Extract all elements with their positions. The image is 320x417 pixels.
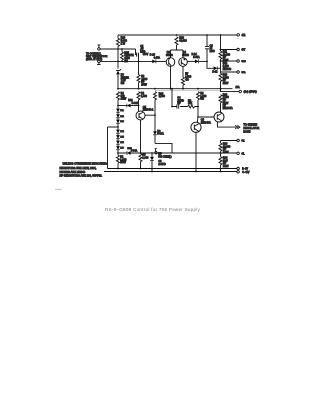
resistor R13 upper xyxy=(219,73,222,81)
node junction x198 y106.5 xyxy=(197,106,199,108)
diode chain D12 xyxy=(117,112,119,114)
svg-text:D12: D12 xyxy=(120,116,123,118)
svg-text:500 OHM(L): 500 OHM(L) xyxy=(158,155,171,158)
svg-text:C- 4AV: C- 4AV xyxy=(242,171,250,174)
svg-text:UNIT THERMISTOR: UNIT THERMISTOR xyxy=(86,56,108,58)
svg-text:NP RESISTORS ARE 1%, 50PPM.: NP RESISTORS ARE 1%, 50PPM. xyxy=(60,174,103,178)
svg-text:4R3: 4R3 xyxy=(241,61,246,63)
svg-text:5-84A: 5-84A xyxy=(193,56,200,59)
diode D6 column xyxy=(151,153,153,157)
svg-text:NP: NP xyxy=(177,102,181,105)
node junction x198 y117 xyxy=(197,116,199,118)
wire y106.5 branch xyxy=(172,106,198,108)
wire TB1 line xyxy=(100,48,135,50)
terminal T5 xyxy=(237,139,240,142)
terminal TB2 xyxy=(98,60,101,63)
wire bottom bus lower xyxy=(104,171,237,173)
svg-text:5-84A: 5-84A xyxy=(131,150,138,153)
node junctions on mid bus xyxy=(117,88,119,90)
resistor R11 xyxy=(219,51,222,59)
wire x118 segment xyxy=(117,49,119,61)
capacitor C3 xyxy=(205,35,209,61)
resistor R9 xyxy=(197,92,200,100)
diode chain D17 xyxy=(117,144,119,146)
svg-text:TO CONTROL: TO CONTROL xyxy=(86,53,102,55)
svg-text:1/2W: 1/2W xyxy=(120,161,126,164)
node junction x138.5 y105.5 xyxy=(138,105,140,107)
svg-text:1/2W: 1/2W xyxy=(223,165,229,168)
faint speck bottom left xyxy=(55,189,62,190)
svg-text:D13: D13 xyxy=(120,121,123,123)
svg-text:90,000: 90,000 xyxy=(179,40,187,43)
wire Q3 emitter to mid bus xyxy=(170,66,172,88)
svg-text:2N1844A: 2N1844A xyxy=(223,107,233,110)
svg-text:1 W: 1 W xyxy=(121,42,126,45)
svg-text:1/2W: 1/2W xyxy=(223,82,229,85)
diode D10 xyxy=(152,60,156,64)
wire terminal T6 line xyxy=(221,152,237,154)
svg-text:2N1844A: 2N1844A xyxy=(201,121,211,124)
wire y153 line xyxy=(118,152,172,154)
wire step from D14 node to right column xyxy=(207,61,214,68)
node junction x152 y153 xyxy=(151,152,153,154)
resistor R1 xyxy=(117,155,120,163)
transistor Q4 xyxy=(179,58,188,67)
node junction top bus at R11 xyxy=(220,34,222,36)
wire to left branch xyxy=(117,123,119,130)
svg-text:(B+) (70V+): (B+) (70V+) xyxy=(244,91,257,94)
wire Q7 base line xyxy=(198,116,214,118)
svg-text:RESISTORS ARE 1/2W, 10%,: RESISTORS ARE 1/2W, 10%, xyxy=(60,166,97,170)
wire bottom bus upper xyxy=(108,168,237,170)
transistor Q5 xyxy=(136,111,145,120)
node junction top bus at R22 xyxy=(176,34,178,36)
svg-text:1N4648: 1N4648 xyxy=(223,68,232,71)
diode chain D16b xyxy=(117,139,119,141)
resistor R22 xyxy=(175,37,178,45)
svg-text:D-12: D-12 xyxy=(212,72,218,74)
wire Q6 emitter xyxy=(195,132,197,171)
wire terminal T3 line xyxy=(221,60,237,62)
terminal B+ xyxy=(239,90,242,93)
svg-text:MFD: MFD xyxy=(210,50,215,53)
svg-text:(REG. AT 25°F): (REG. AT 25°F) xyxy=(86,58,102,61)
resistor R8 horizontal xyxy=(188,105,195,108)
resistor R7 on Q4 emitter xyxy=(182,66,184,77)
node junction top bus at C3 xyxy=(206,34,208,36)
terminal T6 xyxy=(237,152,240,155)
svg-text:TO SERIES: TO SERIES xyxy=(243,122,257,126)
diode D12 step xyxy=(214,66,218,70)
svg-text:5-84A: 5-84A xyxy=(132,102,139,105)
svg-text:47K: 47K xyxy=(188,102,193,105)
svg-text:1,840: 1,840 xyxy=(142,156,149,159)
terminal T8 xyxy=(237,171,240,174)
node junction x207 y61.4 xyxy=(206,61,208,63)
terminal T2 xyxy=(237,48,240,51)
transistor Q3 xyxy=(166,58,175,67)
node junction base line x118 y105.5 xyxy=(117,105,119,107)
svg-text:UNLESS OTHERWISE INDICATED:: UNLESS OTHERWISE INDICATED: xyxy=(63,162,108,166)
wire Q7 emitter to arrow xyxy=(217,122,236,127)
terminal T4 xyxy=(237,71,240,74)
arrow to series regulator xyxy=(235,125,240,128)
node junction x118 y61.4 xyxy=(117,61,119,63)
svg-text:1/2W: 1/2W xyxy=(223,102,229,105)
resistor R25 divider xyxy=(121,52,124,60)
wire B+ terminal line xyxy=(155,90,221,92)
svg-text:1/2W: 1/2W xyxy=(121,98,127,101)
svg-text:400V: 400V xyxy=(143,53,149,56)
terminal TB1 xyxy=(98,48,101,51)
wire TB2 line to Q3 base xyxy=(100,60,166,62)
resistor R13b xyxy=(220,141,222,144)
wire terminal T5 line xyxy=(221,140,237,142)
resistor R14 xyxy=(220,153,222,157)
node junction x220.5 y153 xyxy=(220,152,222,154)
resistor R12b collector feed xyxy=(219,95,222,103)
node junctions bottom bus upper xyxy=(117,168,119,170)
diode chain D11 xyxy=(117,106,119,109)
svg-text:D14: D14 xyxy=(120,131,123,133)
node junction x118 y153 xyxy=(117,152,119,154)
zener diode D9 xyxy=(117,61,119,68)
capacitor C5 xyxy=(136,49,139,57)
terminal T3 xyxy=(237,60,240,63)
svg-text:RS-8–G808 Control for 708 Powe: RS-8–G808 Control for 708 Power Supply xyxy=(105,207,201,212)
wire terminal T2 line xyxy=(221,49,237,51)
svg-text:13A: 13A xyxy=(236,86,241,89)
wire Q3 Q4 collector tie xyxy=(171,50,184,58)
wire mid bus xyxy=(118,88,233,90)
svg-text:D17: D17 xyxy=(120,148,123,150)
svg-text:2N1844-1: 2N1844-1 xyxy=(143,109,154,112)
svg-text:90809: 90809 xyxy=(166,54,173,57)
wire into Q5 base xyxy=(138,106,140,112)
transistor Q6 xyxy=(191,122,201,132)
svg-text:90809: 90809 xyxy=(182,54,189,57)
diode chain D14b xyxy=(116,130,120,134)
svg-text:4.49A: 4.49A xyxy=(154,57,161,60)
node junction x220.5 y49.5 xyxy=(220,49,222,51)
svg-text:1/4W: 1/4W xyxy=(141,83,147,86)
svg-text:D15: D15 xyxy=(120,137,123,139)
terminal T1 xyxy=(237,34,240,37)
wire Q5 collector xyxy=(145,114,155,116)
resistor R10 xyxy=(154,92,157,100)
resistor R3 on Q5 emitter xyxy=(140,120,142,154)
diode D8 xyxy=(153,131,157,135)
wire terminal T4 line xyxy=(221,71,237,73)
wire top bus xyxy=(118,34,237,36)
resistor R4 xyxy=(137,92,140,100)
svg-text:REGULATOR: REGULATOR xyxy=(243,126,259,130)
resistor R6 xyxy=(138,55,140,75)
wire Q6 base entry xyxy=(196,117,199,122)
transistor Q7 xyxy=(214,112,224,122)
diode chain D15 xyxy=(117,133,119,135)
node junction x155 y115.2 xyxy=(154,114,156,116)
node junction Q6 emitter at lower bus xyxy=(195,171,197,173)
capacitor C4 xyxy=(177,104,179,108)
diode D15 horizontal xyxy=(127,151,131,155)
capacitor C1 column xyxy=(171,89,173,107)
svg-text:D16: D16 xyxy=(120,142,123,144)
potentiometer R5 wiper terminal xyxy=(155,151,158,154)
resistor R2 on x118 xyxy=(117,92,120,100)
svg-text:1/2W: 1/2W xyxy=(223,151,229,154)
wire left branch xyxy=(108,127,119,169)
svg-text:BASE: BASE xyxy=(243,130,250,134)
svg-text:1,500: 1,500 xyxy=(141,95,148,98)
svg-text:DIODES ARE 1N648: DIODES ARE 1N648 xyxy=(60,170,86,174)
node junction x220.5 lower bus xyxy=(220,171,222,173)
svg-text:5-84A: 5-84A xyxy=(157,133,164,136)
node junction x118 y127 xyxy=(117,126,119,128)
node junction x118 y49 xyxy=(117,48,119,50)
svg-text:4RL: 4RL xyxy=(241,72,246,74)
wire x220.5 xyxy=(220,61,222,73)
terminal T7 xyxy=(237,167,240,170)
wire below chain xyxy=(117,150,119,155)
svg-text:2,000: 2,000 xyxy=(159,95,166,98)
wire staircase xyxy=(155,143,221,153)
wire right column x220.5 upper xyxy=(220,35,222,51)
diode D14 xyxy=(187,60,195,62)
svg-text:B- 9V: B- 9V xyxy=(242,169,248,171)
diode chain D13 xyxy=(117,118,119,120)
svg-text:D11: D11 xyxy=(120,110,123,112)
svg-text:2-MFD: 2-MFD xyxy=(158,163,166,166)
resistor R20 xyxy=(117,35,119,38)
diode D16 xyxy=(118,105,127,107)
